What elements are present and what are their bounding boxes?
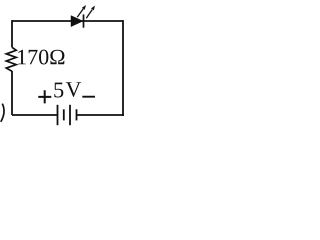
LED D1 triangle anode <box>71 16 83 27</box>
battery plate long <box>69 105 71 125</box>
wire left upper <box>11 20 13 47</box>
LED light arrow 2 <box>86 6 95 19</box>
battery plus sign <box>38 90 51 103</box>
battery minus sign <box>82 96 95 98</box>
LED D1 cathode bar <box>83 14 85 27</box>
wire bottom right <box>77 114 124 116</box>
battery voltage label V <box>66 82 81 97</box>
battery plate short <box>63 109 65 120</box>
battery plate long left (+) <box>57 105 59 125</box>
wire bottom left <box>12 114 58 116</box>
LED light arrow 1 <box>77 5 86 17</box>
wire top <box>12 20 123 22</box>
resistor value label 170ohm <box>18 50 64 65</box>
wire left lower <box>11 71 13 115</box>
battery plate short right (-) <box>76 109 78 120</box>
wire right <box>122 20 124 116</box>
resistor R1 zigzag <box>6 47 16 71</box>
cropped figure label parenthesis <box>1 104 4 122</box>
battery voltage label 5 <box>54 83 63 98</box>
